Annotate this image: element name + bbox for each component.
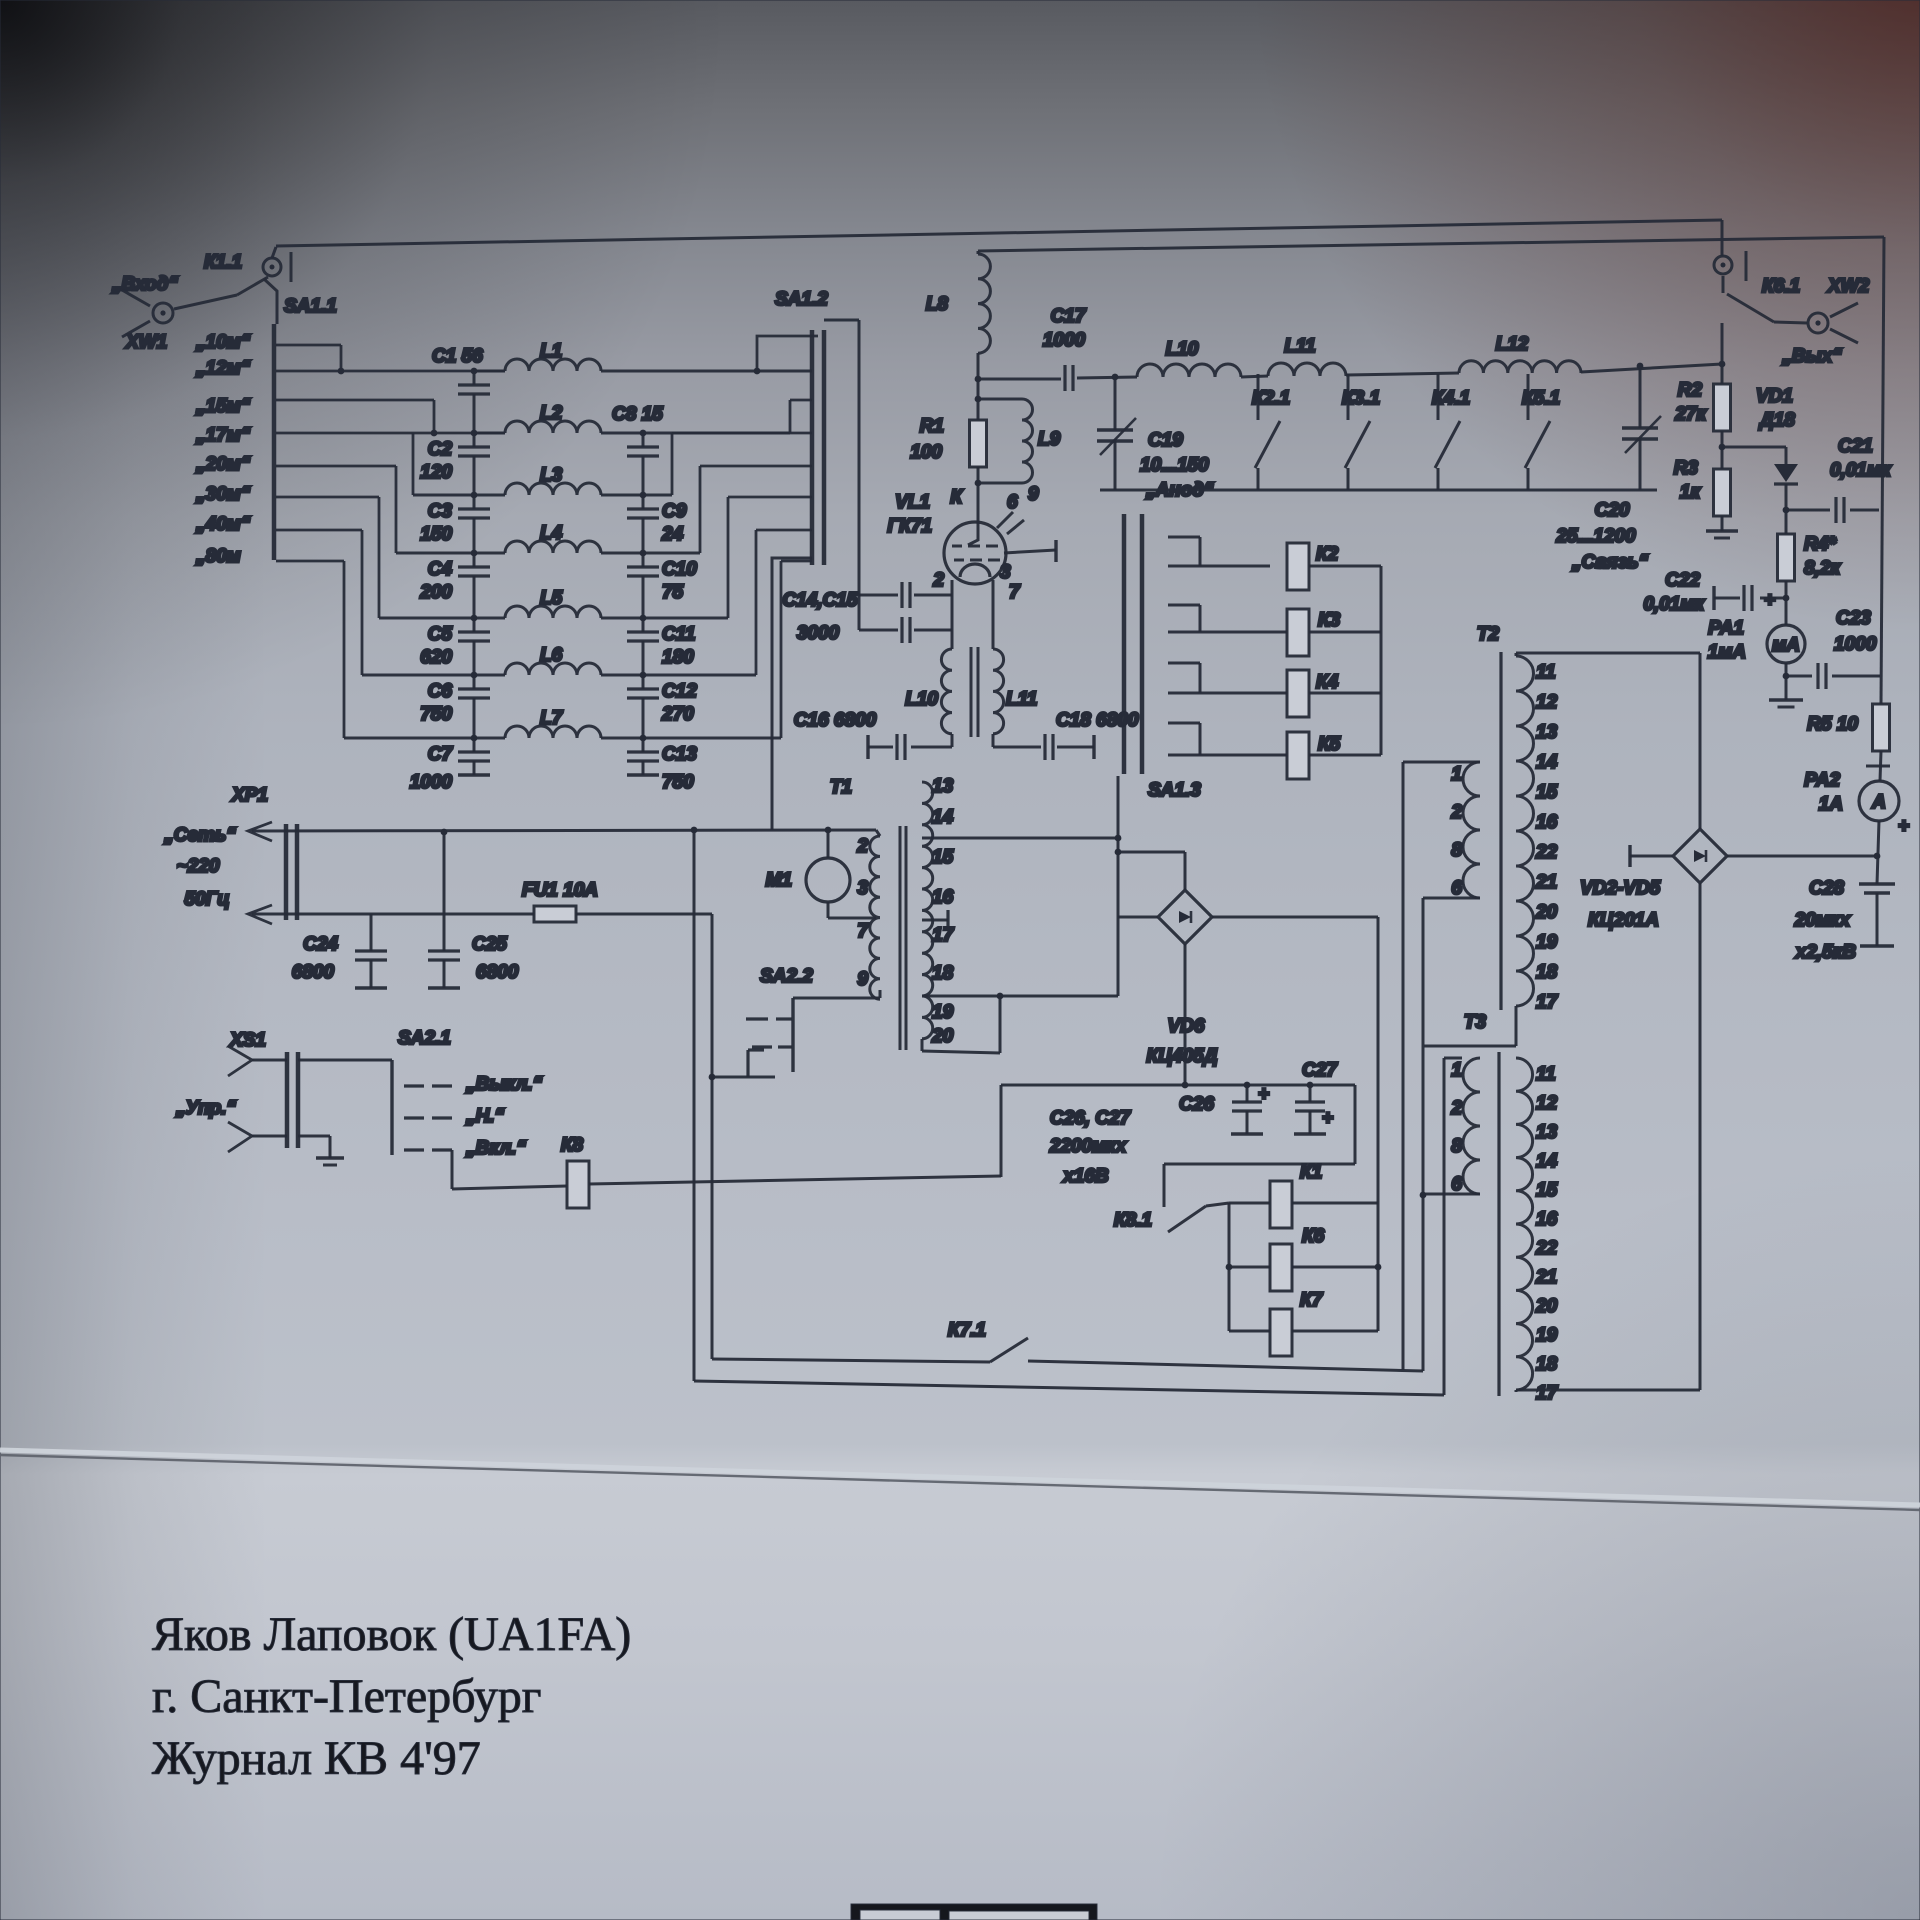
wire node1 row: [474, 370, 505, 373]
svg-text:„17м“: „17м“: [195, 425, 251, 446]
wire T1 pin20 loop: [921, 1039, 924, 1051]
node anode C17: [975, 376, 982, 383]
svg-text:L10: L10: [905, 689, 938, 710]
svg-text:С26, С27: С26, С27: [1050, 1108, 1132, 1129]
svg-text:R1: R1: [920, 416, 944, 437]
svg-text:0,01мк: 0,01мк: [1830, 460, 1892, 481]
switch SA1.3 tap 1: [1168, 536, 1200, 539]
wire relay left rail: [1228, 1203, 1231, 1331]
relay coil K2: [1287, 543, 1309, 590]
svg-text:2: 2: [932, 570, 944, 591]
svg-text:R4*: R4*: [1804, 534, 1837, 555]
wire SA2.2 pick stub: [712, 1076, 775, 1079]
svg-text:14: 14: [932, 807, 954, 828]
wire node4 right step: [699, 466, 702, 553]
svg-text:С7: С7: [428, 744, 454, 765]
svg-text:К8.1: К8.1: [1114, 1210, 1152, 1231]
resistor R1: [970, 420, 987, 467]
svg-text:2: 2: [1450, 1098, 1462, 1119]
svg-text:С5: С5: [428, 624, 453, 645]
svg-text:L1: L1: [540, 341, 562, 362]
svg-text:6: 6: [1451, 1174, 1462, 1195]
relay coil K8: [567, 1161, 589, 1208]
svg-text:VL1: VL1: [895, 492, 930, 513]
svg-text:К1: К1: [1300, 1162, 1322, 1183]
switch SA1.3 tap 4: [1168, 722, 1200, 725]
wire T3 HV bottom: [1515, 1390, 1518, 1392]
wire K8 to right: [589, 1176, 1001, 1184]
svg-text:21: 21: [1535, 872, 1557, 893]
connector K1.1 T-bar: [290, 252, 293, 282]
wire node3 row: [413, 494, 505, 497]
svg-text:2: 2: [1450, 802, 1462, 823]
svg-text:9: 9: [1028, 484, 1039, 505]
resistor R3: [1714, 469, 1731, 516]
svg-text:С3: С3: [428, 501, 453, 522]
svg-text:1к: 1к: [1680, 482, 1702, 503]
wire to VD1: [1722, 446, 1786, 449]
relay coil K5: [1287, 732, 1309, 779]
svg-text:SA2.2: SA2.2: [760, 966, 813, 987]
svg-text:8: 8: [1451, 1136, 1462, 1157]
svg-text:50Гц: 50Гц: [184, 889, 229, 910]
next page box: [851, 1904, 1097, 1920]
svg-text:L12: L12: [1496, 334, 1529, 355]
svg-text:120: 120: [420, 462, 452, 483]
wire bottom outer rail: [694, 1381, 1444, 1395]
capacitor C25: [443, 832, 446, 951]
svg-text:L10: L10: [1166, 339, 1199, 360]
switch SA2.1 contact 2: [404, 1116, 424, 1119]
rectifier VD6 diamond: [1158, 890, 1212, 944]
svg-text:L6: L6: [540, 645, 563, 666]
svg-text:С16 6800: С16 6800: [794, 710, 877, 731]
resistor R2: [1714, 384, 1731, 431]
svg-text:270: 270: [661, 704, 694, 725]
capacitor C15: [859, 629, 898, 632]
node left col y675: [471, 672, 478, 679]
capacitor C6: [458, 687, 490, 690]
wire node6 row: [362, 674, 505, 677]
svg-text:200: 200: [419, 582, 452, 603]
svg-text:С6: С6: [428, 681, 453, 702]
tube leg pin7: [992, 580, 995, 649]
inductor L10 filament: [941, 649, 952, 734]
svg-text:Д18: Д18: [1758, 410, 1795, 431]
svg-text:180: 180: [662, 647, 694, 668]
svg-text:К7.1: К7.1: [948, 1320, 986, 1341]
wire node1 up-jog: [757, 336, 818, 371]
svg-text:Т1: Т1: [830, 777, 852, 798]
svg-text:L4: L4: [540, 523, 563, 544]
wire band 80m row: [276, 560, 344, 563]
node C27: [1307, 1082, 1314, 1089]
inductor L3: [505, 483, 601, 495]
svg-text:SA1.3: SA1.3: [1148, 780, 1201, 801]
svg-text:К3: К3: [1318, 610, 1341, 631]
svg-text:14: 14: [1536, 752, 1558, 773]
svg-text:18: 18: [932, 963, 954, 984]
svg-text:11: 11: [1536, 662, 1556, 683]
svg-text:С27: С27: [1302, 1060, 1338, 1081]
svg-text:13: 13: [932, 776, 954, 797]
inductor L6: [505, 663, 601, 675]
svg-text:„Упр.“: „Упр.“: [175, 1098, 236, 1119]
svg-text:С14,С15: С14,С15: [783, 590, 858, 611]
svg-text:10...150: 10...150: [1140, 455, 1209, 476]
svg-text:7: 7: [857, 921, 869, 942]
wire T1 primary bottom to SA2.2: [793, 997, 880, 1000]
svg-text:С17: С17: [1051, 306, 1087, 327]
svg-text:С24: С24: [303, 934, 338, 955]
transformer T1 primary: [870, 836, 880, 999]
ground PA1: [1769, 698, 1803, 702]
capacitor C9: [627, 507, 659, 510]
svg-text:1А: 1А: [1819, 794, 1843, 815]
svg-text:14: 14: [1536, 1151, 1558, 1172]
tube cathode lead: [968, 522, 978, 545]
capacitor C16: [895, 734, 898, 760]
wire C17 to L10: [1077, 377, 1137, 378]
relay coil K3: [1287, 609, 1309, 656]
wire K3 right: [1309, 631, 1381, 634]
svg-text:С12: С12: [662, 681, 697, 702]
meter PA2: [1859, 781, 1899, 821]
node SA2.2 stub: [709, 1074, 716, 1081]
svg-text:3000: 3000: [797, 623, 840, 644]
svg-text:С8 15: С8 15: [612, 404, 663, 425]
wire bridge bottom: [1699, 883, 1702, 1390]
svg-text:15: 15: [932, 847, 954, 868]
wire bottom inner rail: [712, 1359, 990, 1362]
inductor L11 filament: [993, 649, 1004, 734]
relay coil K4: [1287, 670, 1309, 717]
inductor L4: [505, 541, 601, 553]
tube leg pin2: [951, 580, 954, 649]
meter PA1: [1767, 625, 1805, 663]
switch SA1.3 tap 3: [1168, 662, 1200, 665]
wire XW1 to contact: [174, 295, 237, 309]
svg-text:R2: R2: [1678, 380, 1703, 401]
wire node5 right step: [727, 497, 730, 618]
wire R5 to PA2: [1880, 751, 1881, 781]
node right col y553: [640, 550, 647, 557]
node T3 pin6 tap: [1420, 1192, 1427, 1199]
svg-text:22: 22: [1535, 842, 1558, 863]
svg-text:20: 20: [1535, 1296, 1558, 1317]
svg-text:FU1 10А: FU1 10А: [522, 880, 598, 901]
svg-text:20: 20: [931, 1026, 954, 1047]
svg-text:100: 100: [910, 442, 942, 463]
wire R2 to R3: [1721, 431, 1724, 469]
svg-text:1000: 1000: [1043, 330, 1086, 351]
svg-text:ГК71: ГК71: [888, 516, 932, 537]
svg-text:+: +: [1898, 816, 1909, 837]
wire right rail up T3: [1443, 1058, 1446, 1395]
node VD6 left top: [1115, 849, 1122, 856]
wire K4 right: [1309, 692, 1381, 695]
wire band 20m row: [276, 465, 396, 468]
svg-text:+: +: [1258, 1084, 1269, 1105]
svg-text:К8: К8: [561, 1135, 584, 1156]
svg-text:1: 1: [1451, 1060, 1462, 1081]
wire L10 to C16: [951, 734, 954, 747]
svg-text:С11: С11: [662, 624, 695, 645]
switch SA2.1 common: [390, 1060, 393, 1155]
svg-text:L7: L7: [540, 708, 564, 729]
relay contact К4.1: [1437, 374, 1440, 420]
wire SA1.2 top link: [824, 319, 859, 322]
node VD6 supply: [1182, 1082, 1189, 1089]
svg-text:L11: L11: [1284, 336, 1315, 357]
svg-text:27к: 27к: [1674, 404, 1707, 425]
connector XW2 fork: [1830, 303, 1858, 317]
svg-text:„15м“: „15м“: [195, 396, 251, 417]
wire K1 line: [1229, 1202, 1270, 1205]
svg-text:К4: К4: [1316, 672, 1339, 693]
svg-text:„Вых“: „Вых“: [1781, 346, 1842, 367]
svg-text:24: 24: [661, 524, 684, 545]
node bridge right: [1874, 853, 1881, 860]
capacitor C8: [627, 445, 659, 448]
svg-text:1мА: 1мА: [1708, 642, 1746, 663]
switch SA1.3 tap 2: [1168, 604, 1200, 607]
svg-text:ХW2: ХW2: [1827, 276, 1870, 297]
wire L10-L11: [1241, 376, 1268, 377]
wire L8 top: [977, 251, 980, 254]
capacitor C18: [1043, 734, 1046, 760]
node VD1 bottom: [1783, 507, 1790, 514]
svg-text:„40м“: „40м“: [195, 514, 251, 535]
svg-text:VD1: VD1: [1756, 386, 1793, 407]
node left col y371: [471, 368, 478, 375]
svg-text:L8: L8: [926, 294, 949, 315]
svg-text:8: 8: [1451, 840, 1462, 861]
svg-text:620: 620: [420, 647, 452, 668]
wire L11 to C18: [992, 734, 995, 747]
wire node to SA1.1: [264, 279, 277, 324]
capacitor C7: [458, 750, 490, 753]
connector XS1 fork top: [228, 1046, 252, 1076]
label PA2 minus: [1866, 765, 1890, 768]
wire bridge top: [1699, 653, 1702, 829]
transformer T2 HV winding: [1516, 656, 1534, 1006]
svg-text:17: 17: [1536, 992, 1559, 1013]
svg-text:L9: L9: [1038, 429, 1061, 450]
wire VD1 to node: [1785, 484, 1788, 534]
svg-text:6: 6: [1451, 878, 1462, 899]
connector XP1 bars: [284, 824, 289, 920]
svg-text:6: 6: [1007, 492, 1018, 513]
svg-text:7: 7: [1009, 582, 1021, 603]
ground R3: [1706, 529, 1738, 533]
svg-text:16: 16: [1536, 812, 1558, 833]
switch SA1.1 bar: [272, 324, 277, 560]
wire left inner vertical: [711, 914, 714, 1359]
node K6 left: [1226, 1264, 1233, 1271]
svg-text:0,01мк: 0,01мк: [1643, 594, 1705, 615]
wire node4 row: [396, 552, 505, 555]
svg-text:17: 17: [1536, 1383, 1559, 1404]
svg-text:К3.1: К3.1: [1342, 388, 1380, 409]
svg-text:1: 1: [1451, 764, 1462, 785]
wire T2 primary pin1: [1403, 761, 1480, 764]
svg-text:„80м: „80м: [195, 546, 241, 567]
svg-text:16: 16: [1536, 1209, 1558, 1230]
wire output node vertical: [1721, 323, 1724, 384]
svg-text:мА: мА: [1772, 635, 1800, 656]
wire L9 bottom link: [978, 482, 1022, 485]
svg-text:„Связь“: „Связь“: [1571, 552, 1649, 573]
wire anode to C17: [978, 378, 1061, 381]
diode VD1: [1774, 464, 1798, 482]
svg-text:„20м“: „20м“: [195, 454, 251, 475]
wire M1 bottom: [827, 902, 830, 918]
wire K4 left: [1270, 692, 1287, 695]
node tap upper: [1115, 835, 1122, 842]
wire VD6 right: [1212, 916, 1378, 919]
svg-text:8,2к: 8,2к: [1804, 558, 1841, 579]
svg-text:С18 6800: С18 6800: [1056, 710, 1139, 731]
svg-text:„Н.“: „Н.“: [465, 1106, 505, 1127]
svg-text:С25: С25: [472, 934, 507, 955]
resistor R5: [1873, 704, 1890, 751]
wire K3 left: [1270, 631, 1287, 634]
switch SA2.2 bracket: [746, 1050, 749, 1077]
node left col y553: [471, 550, 478, 557]
capacitor C22: [1760, 597, 1786, 600]
svg-text:х16В: х16В: [1062, 1166, 1109, 1187]
svg-text:19: 19: [1536, 932, 1558, 953]
wire L9 top link: [978, 398, 1022, 401]
wire contacts common rail: [1100, 489, 1657, 492]
wire R1 to cathode: [977, 467, 980, 522]
wire K5 left: [1270, 754, 1287, 757]
svg-text:Т2: Т2: [1477, 624, 1500, 645]
wire K7 line: [1229, 1330, 1270, 1333]
svg-text:РА2: РА2: [1804, 770, 1840, 791]
tube grid dashes: [952, 545, 962, 548]
transformer T1 core: [899, 826, 902, 1050]
node R2 bottom: [1719, 444, 1726, 451]
capacitor C26: [1246, 1085, 1249, 1102]
wire K1.1 to top bus: [272, 247, 276, 258]
svg-text:L11: L11: [1006, 689, 1037, 710]
svg-text:12: 12: [1536, 692, 1558, 713]
wire node5 row: [379, 617, 505, 620]
inductor L2: [505, 421, 601, 433]
wire L12 to output node: [1581, 364, 1722, 372]
motor M1: [806, 858, 850, 902]
capacitor C24: [370, 914, 373, 951]
svg-text:„30м“: „30м“: [195, 484, 251, 505]
svg-text:9: 9: [857, 969, 868, 990]
svg-text:С2: С2: [428, 439, 453, 460]
wire node3 step: [412, 433, 415, 495]
svg-text:С13: С13: [662, 744, 697, 765]
capacitor C10: [627, 565, 659, 568]
svg-text:К4.1: К4.1: [1432, 388, 1470, 409]
svg-text:13: 13: [1536, 1122, 1558, 1143]
wire L8 to R1: [977, 353, 980, 420]
node left outer top: [691, 827, 698, 834]
svg-text:г. Санкт-Петербург: г. Санкт-Петербург: [152, 1670, 541, 1723]
switch SA2.1 contact 1: [404, 1084, 424, 1087]
capacitor C4: [458, 565, 490, 568]
wire left cap column: [473, 371, 476, 385]
connector XS1 fork bottom: [228, 1122, 252, 1152]
wire vertical B: [1422, 898, 1425, 1371]
wire node2 row: [474, 432, 505, 435]
wire node7 right step: [780, 561, 783, 738]
svg-text:С10: С10: [662, 559, 697, 580]
wire band 10m row: [276, 344, 341, 347]
svg-text:К2.1: К2.1: [1252, 388, 1290, 409]
svg-text:22: 22: [1535, 1238, 1558, 1259]
svg-text:К5: К5: [1318, 734, 1341, 755]
wire bottom inner rail right: [1028, 1361, 1423, 1371]
svg-text:С19: С19: [1148, 430, 1183, 451]
svg-text:„Выкл.“: „Выкл.“: [465, 1074, 543, 1095]
transformer T3 primary: [1463, 1058, 1480, 1194]
relay coil K7: [1270, 1309, 1292, 1356]
svg-text:С4: С4: [428, 559, 453, 580]
capacitor C23: [1786, 675, 1812, 678]
ground XS1: [316, 1156, 344, 1160]
svg-text:КЦ405Д: КЦ405Д: [1147, 1046, 1218, 1067]
capacitor C17: [1063, 365, 1066, 391]
svg-text:С21: С21: [1838, 436, 1873, 457]
wire K5 right: [1309, 754, 1381, 757]
capacitor C21: [1786, 509, 1830, 512]
inductor L12 tank: [1459, 361, 1581, 373]
svg-text:С22: С22: [1665, 570, 1700, 591]
wire T3 pin6: [1423, 1193, 1480, 1196]
wire band 15m row: [276, 399, 434, 402]
relay coil K6: [1270, 1244, 1292, 1291]
wire SA1.2 bottom to mains: [772, 558, 812, 830]
svg-text:20: 20: [1535, 902, 1558, 923]
svg-text:ХР1: ХР1: [231, 785, 268, 806]
wire right edge bus down to R5: [1881, 237, 1884, 704]
node output: [1719, 361, 1726, 368]
connector K1.1 circle: [263, 258, 281, 276]
wire K6 line: [1229, 1266, 1270, 1269]
node R4 bottom: [1783, 595, 1790, 602]
svg-text:1000: 1000: [410, 772, 453, 793]
node C20: [1637, 363, 1644, 370]
transformer T3 core: [1497, 1052, 1500, 1396]
node R1 bottom: [975, 480, 982, 487]
wire SA1.3 down: [1117, 776, 1120, 917]
svg-text:L5: L5: [540, 588, 563, 609]
capacitor C12: [627, 687, 659, 690]
svg-text:17: 17: [932, 925, 955, 946]
wire VD6 top: [1184, 852, 1187, 890]
wire T2 primary pin6: [1423, 897, 1480, 900]
wire R3 ground: [1721, 516, 1724, 531]
svg-text:2200мкх: 2200мкх: [1049, 1136, 1128, 1157]
capacitor C28: [1859, 882, 1895, 885]
wire relay right rail: [1377, 1203, 1380, 1331]
capacitor C20 variable: [1639, 366, 1642, 428]
wire to XW2: [1774, 322, 1807, 323]
wire VD6 left: [1118, 916, 1158, 919]
T1 ground tap: [922, 919, 948, 922]
svg-text:15: 15: [1536, 782, 1558, 803]
node C25 top: [441, 829, 448, 836]
svg-text:„Вкл.“: „Вкл.“: [465, 1138, 526, 1159]
